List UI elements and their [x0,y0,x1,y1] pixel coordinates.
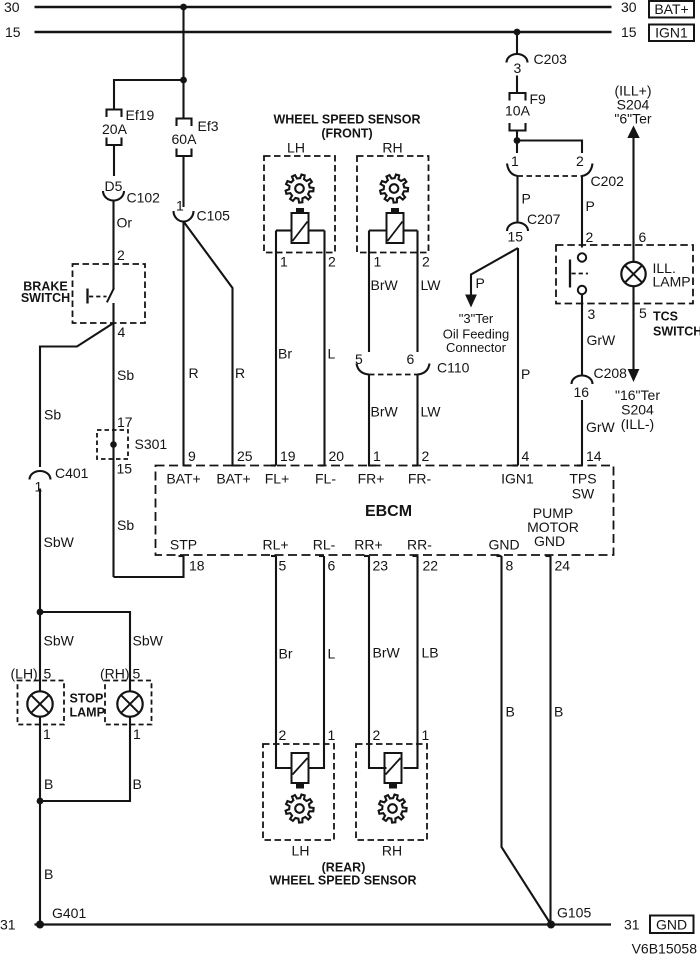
wire TCS pin3 to C208, GrW [581,294,583,375]
svg-text:1: 1 [35,479,43,495]
wire C102 to brake switch, Or [112,201,114,265]
svg-text:(RH): (RH) [100,666,130,682]
svg-text:B: B [554,704,563,720]
svg-text:5: 5 [133,666,141,682]
svg-text:5: 5 [639,305,647,321]
wire rail30 to Ef3 [182,7,184,119]
svg-text:Ef19: Ef19 [126,107,155,123]
svg-text:31: 31 [624,917,640,933]
wire rail15 to C203 [516,32,518,54]
front LH sensor stub wires [276,229,292,231]
svg-text:GND: GND [488,537,519,553]
svg-text:2: 2 [576,153,584,169]
svg-text:2: 2 [328,254,336,270]
wire front RH pin2, LW [416,231,418,353]
svg-text:B: B [44,776,53,792]
svg-text:LAMP: LAMP [653,274,691,290]
wire C110-6 to EBCM 2, LW [416,375,418,466]
svg-text:22: 22 [423,558,439,574]
rear LH sensor pickup [292,753,309,783]
svg-text:10A: 10A [505,103,531,119]
svg-text:RH: RH [382,140,402,156]
svg-text:6: 6 [639,229,647,245]
rear LH sensor gear [286,795,314,823]
stop lamp RH bulb [117,691,142,716]
svg-text:30: 30 [4,0,20,15]
svg-text:31: 31 [0,917,16,933]
TCS switch actuator [569,260,571,288]
wire S204 to ILL lamp [632,137,634,262]
svg-text:SbW: SbW [133,633,164,649]
svg-text:Sb: Sb [44,407,61,423]
svg-text:SWITCH: SWITCH [653,325,700,339]
svg-text:2: 2 [422,254,430,270]
svg-text:(FRONT): (FRONT) [321,127,372,141]
svg-text:IGN1: IGN1 [655,25,688,41]
junction below F9 [514,137,521,144]
svg-text:6: 6 [328,558,336,574]
svg-text:LH: LH [292,843,310,859]
junction node x183 y80 [180,77,187,84]
junction to RH stop lamp [37,609,44,616]
svg-text:BrW: BrW [373,645,401,661]
svg-text:C203: C203 [534,51,568,67]
wire LH lamp to G401, B [39,716,41,924]
svg-text:C102: C102 [127,190,161,206]
wire C202-1 to C207, P [516,176,518,222]
svg-text:D5: D5 [105,178,123,194]
svg-text:2: 2 [117,247,125,263]
svg-text:1: 1 [328,727,336,743]
svg-text:P: P [521,366,530,382]
svg-text:S301: S301 [135,436,168,452]
connector C203 pin 3 [507,54,528,63]
svg-text:19: 19 [280,448,296,464]
IGN1 net box [649,25,694,42]
svg-text:(REAR): (REAR) [322,861,366,875]
fuse F9 10A [510,93,526,101]
svg-text:15: 15 [621,24,637,40]
svg-text:Sb: Sb [117,367,134,383]
wire RH lamp to junction, B [40,716,130,801]
wire EBCM 23 to rear RH pin2, BrW [369,556,387,768]
svg-text:R: R [189,365,199,381]
wire EBCM 22 to rear RH pin1, LB [404,556,418,768]
svg-text:GND: GND [656,917,687,933]
branch to oil feeding connector, P [471,248,518,295]
svg-text:P: P [476,275,485,291]
svg-text:FR-: FR- [408,471,432,487]
svg-text:25: 25 [237,448,253,464]
svg-text:L: L [328,346,336,362]
svg-text:SbW: SbW [44,633,75,649]
GND net box [650,916,694,934]
ground rail 31 [35,923,612,925]
fuse Ef3 60A [177,119,192,127]
svg-text:RL+: RL+ [262,537,288,553]
svg-text:WHEEL SPEED SENSOR: WHEEL SPEED SENSOR [273,113,420,127]
svg-text:(LH): (LH) [11,666,38,682]
ground G105 [547,921,555,929]
front LH sensor gear [286,175,314,203]
svg-text:C207: C207 [527,211,561,227]
svg-text:5: 5 [279,558,287,574]
junction B wires [37,798,44,805]
rear RH sensor gear [379,795,407,823]
rear RH sensor pickup [385,753,402,783]
svg-text:B: B [44,866,53,882]
svg-text:15: 15 [508,229,524,245]
brake switch actuator [86,289,88,304]
svg-text:LB: LB [422,645,439,661]
svg-text:RH: RH [382,843,402,859]
svg-text:V6B15058: V6B15058 [632,941,698,957]
wire C105 to EBCM pin 9, R [182,222,184,466]
svg-text:G105: G105 [557,905,591,921]
svg-text:8: 8 [506,558,514,574]
wire EBCM 5 to rear LH pin2, Br [276,556,292,768]
wire Ef3 to C105 [182,156,184,207]
svg-text:STP: STP [170,537,197,553]
svg-text:GrW: GrW [587,332,617,348]
svg-text:GND: GND [534,533,565,549]
BAT+ net box [649,1,694,18]
svg-text:TPS: TPS [569,471,596,487]
svg-text:LH: LH [287,140,305,156]
EBCM box [156,466,614,556]
arrow to oil feeding connector [465,295,477,308]
svg-text:Or: Or [117,215,133,231]
svg-text:2: 2 [422,448,430,464]
svg-text:BrW: BrW [371,404,399,420]
wire brake pin4 down, Sb [112,323,114,577]
svg-text:RR-: RR- [407,537,432,553]
svg-text:F9: F9 [530,91,547,107]
svg-text:9: 9 [188,448,196,464]
svg-text:SbW: SbW [44,534,75,550]
connector C208 pin 16 [572,376,593,385]
splice S301 [97,430,128,459]
stop lamp LH bulb [27,691,52,716]
wire C105 diagonal to EBCM pin 25, R [184,222,241,466]
svg-text:4: 4 [522,448,530,464]
TCS switch box [556,245,693,304]
svg-text:Ef3: Ef3 [198,118,219,134]
svg-text:1: 1 [422,727,430,743]
svg-text:30: 30 [621,0,637,15]
wire branch to Ef19 [114,80,184,110]
wire F9 to C202 [516,131,518,154]
svg-text:FL+: FL+ [265,471,290,487]
junction on rail 30 [180,4,187,11]
svg-text:"3"Ter: "3"Ter [459,311,494,326]
wire EBCM 24 to G105, B [549,556,551,925]
svg-text:20A: 20A [102,121,128,137]
ground G401 [36,921,44,929]
svg-text:5: 5 [44,666,52,682]
svg-text:60A: 60A [172,131,198,147]
power rail 15 (IGN1) [35,31,612,33]
wire C110-5 to EBCM 1, BrW [369,375,376,466]
front RH sensor pickup [391,208,399,214]
front RH sensor stub wires [369,229,387,231]
svg-text:B: B [506,704,515,720]
svg-text:6: 6 [407,351,415,367]
wire C208 to EBCM 14, GrW [581,400,583,466]
svg-text:STOP: STOP [70,692,104,706]
svg-text:2: 2 [586,229,594,245]
svg-text:BAT+: BAT+ [654,1,688,17]
svg-text:14: 14 [586,448,602,464]
svg-text:RL-: RL- [313,537,336,553]
TCS switch contacts [578,253,586,261]
svg-text:"6"Ter: "6"Ter [614,111,652,127]
svg-text:LW: LW [421,277,442,293]
wire EBCM 8 GND to G105, B [502,556,552,925]
svg-text:Br: Br [279,646,293,662]
svg-text:BrW: BrW [371,277,399,293]
svg-text:1: 1 [43,726,51,742]
svg-text:Br: Br [278,346,292,362]
svg-text:24: 24 [555,558,571,574]
svg-text:LW: LW [421,404,442,420]
wire C207 to EBCM 4, P [517,248,519,466]
rear LH sensor box [263,744,334,840]
power rail 30 (BAT+) [35,6,612,8]
svg-text:20: 20 [329,448,345,464]
svg-text:18: 18 [189,558,205,574]
svg-text:15: 15 [5,24,21,40]
brake switch contact [112,264,114,290]
stop lamp RH box [105,681,152,725]
svg-text:P: P [586,198,595,214]
svg-text:4: 4 [118,324,126,340]
ILL lamp bulb [621,262,645,286]
svg-text:BAT+: BAT+ [166,471,200,487]
svg-text:L: L [328,646,336,662]
svg-text:1: 1 [133,726,141,742]
svg-text:R: R [235,365,245,381]
svg-text:(ILL-): (ILL-) [621,416,654,432]
svg-text:LAMP: LAMP [70,706,105,720]
svg-text:Connector: Connector [446,340,507,355]
svg-text:WHEEL SPEED SENSOR: WHEEL SPEED SENSOR [269,874,416,888]
fuse Ef19 20A [107,110,122,118]
wire Ef19 to C102 [113,145,115,176]
wire EBCM 6 to rear LH pin1, L [309,556,325,768]
svg-text:2: 2 [279,727,287,743]
arrow up to S204 [627,126,639,139]
svg-text:1: 1 [176,198,184,214]
svg-text:RR+: RR+ [354,537,382,553]
wire branch to C202 pin2 [517,141,582,154]
arrow down to S204 ILL- [628,369,640,382]
wire brake pin4 branch to stop lamps [40,323,114,467]
svg-text:1: 1 [280,254,288,270]
wire C401 to stop lamps, SbW [39,489,41,692]
svg-text:23: 23 [373,558,389,574]
svg-text:P: P [522,191,531,207]
svg-text:1: 1 [374,254,382,270]
svg-text:TCS: TCS [653,310,678,324]
wire ILL lamp to S204 ILL- [632,286,634,369]
svg-text:SWITCH: SWITCH [21,291,70,305]
front RH sensor gear [380,175,408,203]
svg-text:EBCM: EBCM [365,503,412,520]
svg-text:IGN1: IGN1 [501,471,534,487]
svg-text:17: 17 [117,414,133,430]
svg-text:2: 2 [373,727,381,743]
svg-text:BAT+: BAT+ [216,471,250,487]
svg-text:SW: SW [572,486,595,502]
rear RH sensor box [356,744,427,840]
connector C401 pin 1 [30,471,51,480]
wire front RH pin1, BrW [368,231,370,353]
wire C203 to F9 [516,76,518,94]
svg-text:C105: C105 [197,208,231,224]
svg-text:3: 3 [588,306,596,322]
svg-text:FR+: FR+ [358,471,385,487]
svg-text:GrW: GrW [586,419,616,435]
wire front LH pin1 to EBCM 19, Br [275,231,277,466]
svg-text:G401: G401 [52,905,86,921]
svg-text:Sb: Sb [117,517,134,533]
wire C202-2 to TCS switch, P [581,176,583,248]
svg-text:C208: C208 [594,365,628,381]
stop lamp LH box [18,681,65,725]
svg-text:B: B [133,776,142,792]
svg-text:C202: C202 [591,173,625,189]
connector C207 pin 15 [507,223,528,232]
svg-text:1: 1 [511,153,519,169]
svg-text:3: 3 [514,60,522,76]
wire to EBCM pin 18 STP [114,556,184,577]
wire front LH pin2 to EBCM 20, L [323,231,325,466]
svg-text:16: 16 [574,384,590,400]
svg-text:C401: C401 [55,465,89,481]
brake switch box [73,264,146,323]
svg-text:1: 1 [373,448,381,464]
svg-text:C110: C110 [437,360,470,376]
svg-text:FL-: FL- [315,471,336,487]
front LH sensor pickup [296,208,304,214]
svg-text:15: 15 [117,461,133,477]
